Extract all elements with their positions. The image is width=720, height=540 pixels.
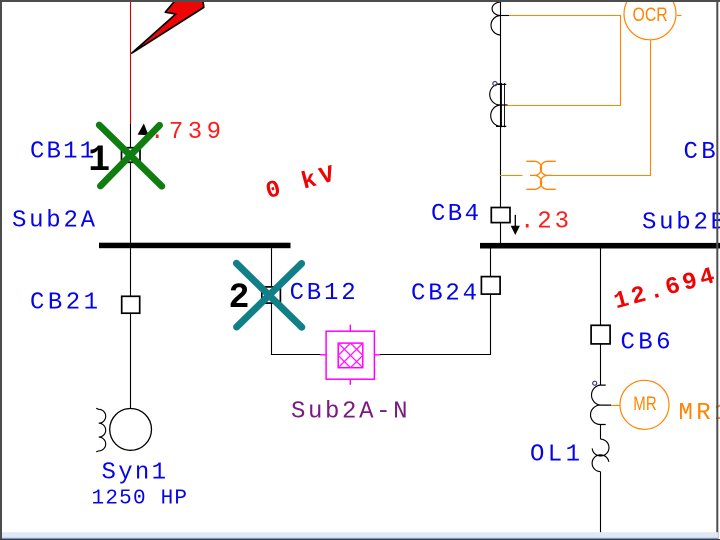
network element Sub2A-N outer box bbox=[326, 331, 374, 379]
incoming feeder wire to CB4 bbox=[500, 2, 502, 208]
svg-text:CB5: CB5 bbox=[684, 139, 720, 166]
canvas left border bbox=[0, 0, 2, 540]
CT2 ticks bbox=[496, 84, 508, 126]
breaker CB11 bbox=[122, 148, 141, 163]
svg-text:2: 2 bbox=[229, 278, 250, 318]
wire bus Sub2B to CB6 bbox=[600, 248, 602, 325]
out-of-service X marker 1 (green) bbox=[99, 125, 162, 186]
svg-text:MR1: MR1 bbox=[679, 400, 720, 427]
flow arrow at CB4 shaft bbox=[514, 215, 516, 226]
svg-text:Sub2A-N: Sub2A-N bbox=[291, 399, 408, 426]
wire CB4 to bus Sub2B bbox=[500, 223, 502, 243]
CT secondary loop (orange) bbox=[508, 16, 621, 106]
OCR right tick bbox=[677, 15, 682, 17]
svg-text:MR: MR bbox=[633, 394, 656, 415]
overload heater OL1 bbox=[592, 439, 609, 471]
status bar band bbox=[2, 532, 718, 538]
MR tap wire (orange) bbox=[611, 405, 620, 407]
Sub2A-N crosshatch bbox=[338, 343, 363, 368]
svg-text:CB4: CB4 bbox=[431, 201, 479, 228]
relay MR circle bbox=[620, 380, 669, 429]
status bar lower edge bbox=[2, 538, 718, 539]
MR CT winding bumps bbox=[591, 385, 601, 425]
breaker CB4 bbox=[491, 208, 510, 223]
svg-text:OCR: OCR bbox=[633, 5, 668, 26]
breaker CB6 bbox=[591, 325, 610, 344]
flow arrow at CB11 bbox=[138, 124, 149, 136]
PT right winding bbox=[540, 161, 555, 189]
svg-text:CB6: CB6 bbox=[621, 330, 671, 357]
wire CB12 to Sub2A-N bbox=[271, 354, 321, 356]
Syn1 winding bumps bbox=[96, 408, 106, 452]
Sub2A-N left stub bbox=[320, 354, 326, 356]
CT1 tap tick bbox=[500, 15, 509, 17]
Sub2A-N right stub bbox=[374, 354, 380, 356]
PT wire to feeder bbox=[500, 175, 523, 177]
CT2 core bars bbox=[502, 83, 505, 127]
CT2 winding bumps bbox=[490, 84, 500, 127]
Sub2A-N bottom stub bbox=[349, 379, 351, 385]
canvas top border bbox=[0, 0, 720, 2]
wire feeder to CB11 bbox=[130, 124, 132, 148]
wire bus Sub2A to CB21 bbox=[130, 248, 132, 296]
wire up to CB24 bbox=[490, 294, 492, 355]
MR CT ticks bbox=[600, 385, 611, 424]
out-of-service X marker 2 (teal) bbox=[236, 263, 301, 327]
Sub2A-N inner square bbox=[338, 343, 363, 368]
svg-text:.23: .23 bbox=[520, 209, 569, 236]
wire CB11 to bus Sub2A bbox=[130, 162, 132, 243]
breaker CB24 bbox=[481, 277, 500, 295]
wire CB6 to MR CT bbox=[600, 344, 602, 385]
CT1 bumps bbox=[491, 2, 500, 35]
synchronous motor Syn1 bbox=[110, 409, 152, 451]
svg-text:Sub2A: Sub2A bbox=[12, 208, 96, 235]
bus Sub2B bbox=[480, 243, 720, 249]
PT left winding bbox=[526, 161, 541, 189]
wire MR CT to OL1 bbox=[600, 425, 602, 440]
wire Sub2A-N to CB24 bbox=[380, 354, 491, 356]
breaker CB12 bbox=[262, 287, 281, 303]
wire CB12 down bbox=[271, 303, 273, 355]
wire CB24 to bus Sub2B bbox=[490, 248, 492, 276]
Sub2A-N top stub bbox=[349, 325, 351, 332]
lightning fault flash bbox=[132, 0, 204, 53]
wire CB21 to Syn1 bbox=[130, 313, 132, 408]
OCR stem wire bbox=[551, 41, 650, 176]
window bottom border bbox=[0, 539, 720, 540]
wire OL1 down bbox=[600, 472, 602, 533]
CT2 polarity mark bbox=[493, 82, 497, 86]
svg-text:OL1: OL1 bbox=[530, 442, 580, 469]
MR CT polarity mark bbox=[593, 381, 597, 385]
relay OCR circle bbox=[624, 0, 676, 40]
bus Sub2A bbox=[99, 243, 291, 249]
breaker CB21 bbox=[122, 296, 140, 313]
svg-text:1250 HP: 1250 HP bbox=[92, 488, 188, 511]
canvas right border bbox=[716, 0, 718, 540]
svg-text:1: 1 bbox=[88, 140, 110, 182]
flow arrow at CB4 head bbox=[511, 226, 520, 235]
utility feeder wire (red) bbox=[130, 2, 132, 124]
wire bus Sub2A to CB12 bbox=[271, 248, 273, 287]
